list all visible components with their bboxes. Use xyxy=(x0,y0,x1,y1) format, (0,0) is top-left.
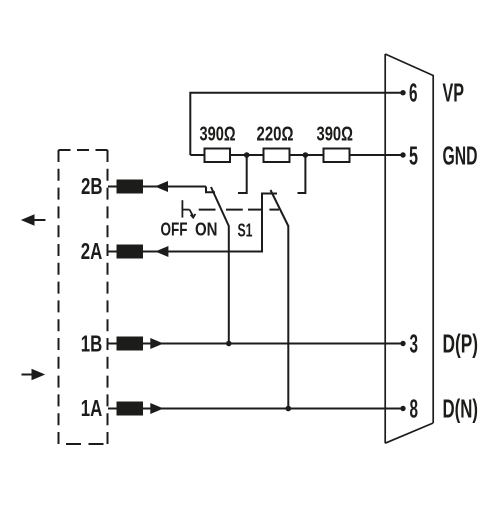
switch coupling dashed link xyxy=(199,209,279,211)
resistor R3 390Ω xyxy=(324,149,350,163)
svg-text:S1: S1 xyxy=(238,221,253,241)
terminal block 2A xyxy=(117,245,144,259)
svg-text:6: 6 xyxy=(409,80,418,108)
wire 2A riser to switch pole2 contact xyxy=(262,194,277,253)
wire R1-R2 xyxy=(230,154,264,156)
wire R3 to pin5 xyxy=(350,154,404,156)
pin 6 dot xyxy=(400,90,405,95)
incoming bus arrow (bottom left) xyxy=(22,369,46,381)
resistor R2 220Ω xyxy=(264,149,290,163)
D-sub connector outline xyxy=(385,54,433,443)
pin 3 dot xyxy=(400,341,405,346)
wire 1B xyxy=(108,343,403,345)
wire R2-R3 xyxy=(290,154,324,156)
pin 8 dot xyxy=(400,406,405,411)
node J1 xyxy=(244,152,250,158)
wire GND row (pin5) xyxy=(190,154,204,156)
arrowhead on wire 2B xyxy=(155,181,168,192)
switch S1 pole2 blade xyxy=(271,190,289,226)
arrowhead on wire 1B xyxy=(150,338,163,349)
wire VP (pin6) top run xyxy=(190,93,403,155)
outgoing bus arrow (top left) xyxy=(21,214,46,226)
dashed cable shield box xyxy=(59,150,108,444)
wire 2A xyxy=(108,251,262,253)
svg-text:OFF: OFF xyxy=(161,220,188,240)
svg-text:390Ω: 390Ω xyxy=(317,124,354,146)
manual lever OFF/ON symbol xyxy=(182,200,195,217)
terminal block 1A xyxy=(117,402,144,416)
wire 2B xyxy=(108,186,206,188)
wire pole2 down to 1A xyxy=(287,226,289,409)
arrowhead on wire 2A xyxy=(155,246,168,257)
resistor R1 390Ω xyxy=(205,149,231,163)
switch S1 pole1 blade xyxy=(211,187,229,226)
node: pole1 joins wire 1B xyxy=(226,341,232,347)
arrowhead on wire 1A xyxy=(150,403,163,414)
node J2 xyxy=(303,152,309,158)
svg-text:GND: GND xyxy=(443,143,478,171)
wire J1 riser to switch pole1 throw contact xyxy=(238,155,247,193)
svg-text:390Ω: 390Ω xyxy=(200,124,236,146)
wire pole1 down to 1B xyxy=(228,226,230,344)
terminal block 1B xyxy=(117,337,144,351)
svg-text:220Ω: 220Ω xyxy=(257,124,294,146)
wire 1A xyxy=(108,408,403,410)
pin 5 dot xyxy=(400,152,405,157)
switch S1 pole1 fixed contact (2B step) xyxy=(206,187,215,193)
svg-text:2A: 2A xyxy=(81,238,103,264)
svg-text:1A: 1A xyxy=(81,395,103,421)
terminal block 2B xyxy=(117,180,144,194)
svg-text:5: 5 xyxy=(409,143,418,171)
svg-text:VP: VP xyxy=(443,80,465,108)
wire J2 riser to switch pole2 throw contact xyxy=(298,155,306,193)
svg-text:D(N): D(N) xyxy=(443,396,479,424)
svg-text:8: 8 xyxy=(410,396,419,424)
svg-text:D(P): D(P) xyxy=(443,331,479,359)
svg-text:1B: 1B xyxy=(81,331,103,357)
svg-text:ON: ON xyxy=(195,220,218,240)
svg-text:3: 3 xyxy=(410,331,419,359)
svg-text:2B: 2B xyxy=(81,173,103,199)
node: pole2 joins wire 1A xyxy=(286,406,292,412)
